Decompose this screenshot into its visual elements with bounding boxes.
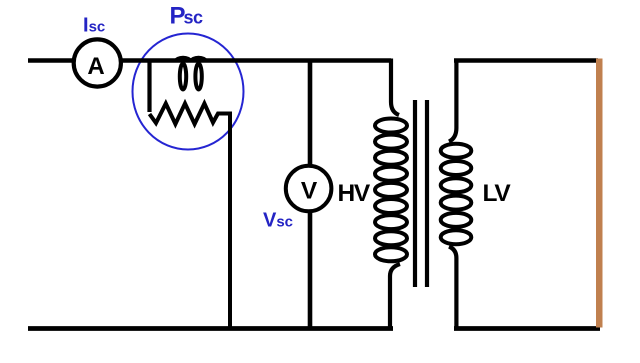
svg-text:A: A — [87, 53, 104, 80]
svg-text:Isc: Isc — [83, 15, 105, 37]
svg-text:Psc: Psc — [170, 3, 204, 30]
svg-text:HV: HV — [338, 180, 371, 207]
svg-text:V: V — [301, 178, 318, 205]
svg-text:LV: LV — [483, 180, 512, 207]
svg-text:Vsc: Vsc — [263, 210, 293, 232]
